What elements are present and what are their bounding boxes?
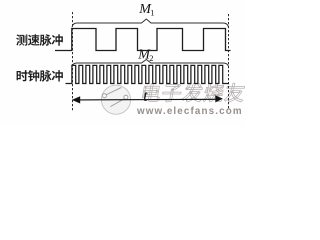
right arrowhead [215, 95, 223, 102]
time axis [76, 98, 218, 101]
svg-text:1: 1 [150, 8, 154, 18]
speed pulse waveform [55, 29, 231, 51]
right dashed line [228, 14, 230, 109]
svg-text:www.elecfans.com: www.elecfans.com [136, 106, 243, 117]
speed label 测速脉冲 [16, 34, 27, 45]
svg-text:t: t [143, 88, 148, 105]
left dashed line [72, 12, 74, 111]
watermark logo circle [101, 85, 130, 114]
watermark text 电子发烧友 [142, 83, 162, 101]
M1 brace [72, 19, 229, 27]
svg-text:2: 2 [149, 53, 153, 63]
M2 brace [72, 60, 229, 67]
left arrowhead [72, 96, 80, 103]
clock label 时钟脉冲 [17, 70, 28, 81]
clock waveform [66, 65, 230, 83]
